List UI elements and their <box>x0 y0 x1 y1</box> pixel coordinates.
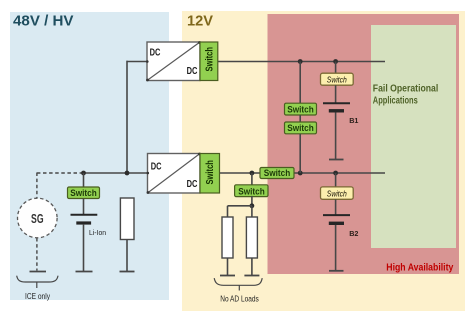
svg-text:DC: DC <box>150 47 161 58</box>
svg-text:B1: B1 <box>349 116 358 125</box>
svg-text:SG: SG <box>31 212 44 226</box>
svg-text:Fail Operational: Fail Operational <box>373 82 439 94</box>
wire S8 to battery B2 <box>335 199 337 215</box>
switch S4 in-line lower bus <box>260 168 294 180</box>
svg-text:DC: DC <box>187 66 198 77</box>
resistor load right <box>246 217 257 258</box>
wire top bus to switch S7 <box>335 62 337 74</box>
ground terminal under B1 <box>329 159 344 161</box>
zone 12V background <box>182 11 465 311</box>
wire Li-Ion branch upper <box>83 173 85 187</box>
ground terminal under Li-Ion <box>76 271 93 273</box>
wire dashed SG vertical bottom <box>36 238 38 271</box>
ground terminal under SG <box>30 271 47 273</box>
ground terminal under B2 <box>329 270 344 272</box>
wire resistor to ground <box>126 240 128 272</box>
wire Li-Ion battery to ground <box>83 224 85 271</box>
wire 48V bus to DC/DC U2 <box>84 172 148 174</box>
svg-text:Switch: Switch <box>327 189 347 198</box>
wire load split horizontal <box>228 205 252 207</box>
ground terminal load left <box>220 275 235 277</box>
battery B2 <box>323 215 358 238</box>
wire load right to ground <box>251 258 253 275</box>
node lower bus / B2 branch <box>333 171 338 176</box>
svg-text:B2: B2 <box>349 229 358 238</box>
svg-text:Li-Ion: Li-Ion <box>89 228 106 237</box>
switch S8 B2 (normally open) <box>321 187 354 199</box>
zone 48V/HV background <box>10 12 169 300</box>
switch S9 No-AD loads <box>235 185 268 198</box>
svg-text:Switch: Switch <box>264 168 291 179</box>
svg-text:Applications: Applications <box>373 95 418 107</box>
switch S6 cross-tie lower <box>285 122 317 134</box>
svg-text:Switch: Switch <box>70 188 97 199</box>
wire lower bus to switch S9 <box>251 173 253 185</box>
svg-text:DC: DC <box>187 179 198 190</box>
DC/DC converter U2 <box>147 153 201 194</box>
switch S2 at U1 output <box>200 42 218 81</box>
SG starter-generator <box>18 198 58 238</box>
switch S3 at U2 output <box>200 154 220 194</box>
battery B1 <box>323 103 358 125</box>
svg-text:ICE only: ICE only <box>25 292 50 301</box>
node lower bus / No-AD branch <box>250 171 255 176</box>
wire switch to Li-Ion battery <box>83 199 85 215</box>
wire S9 to load node <box>251 196 253 206</box>
node 48V bus / Li-Ion branch <box>81 171 86 176</box>
wire battery B1 to terminal <box>335 112 337 159</box>
wire cross-tie lower <box>299 134 301 173</box>
ground terminal under 48V resistor <box>120 271 135 273</box>
svg-text:48V / HV: 48V / HV <box>13 14 74 30</box>
wire dashed SG to 48V bus <box>37 172 84 174</box>
svg-text:Switch: Switch <box>205 47 216 71</box>
svg-text:Switch: Switch <box>287 104 314 115</box>
brace ICE only <box>17 276 58 301</box>
wire cross-tie middle <box>299 115 301 122</box>
node lower bus / cross-tie <box>298 171 303 176</box>
wire cross-tie upper <box>299 62 301 104</box>
ground terminal load right <box>244 275 259 277</box>
svg-text:Switch: Switch <box>287 123 314 134</box>
battery Li-Ion <box>71 215 107 237</box>
resistor load left <box>222 217 233 258</box>
wire load left to ground <box>227 258 229 275</box>
svg-text:12V: 12V <box>187 14 213 30</box>
wire dashed SG vertical top <box>36 173 38 199</box>
node 48V bus / trunk <box>125 171 130 176</box>
wire DC/DC U1 input <box>127 61 148 63</box>
svg-text:DC: DC <box>151 161 162 172</box>
wire battery B2 to terminal <box>335 225 337 270</box>
svg-text:Switch: Switch <box>327 75 347 84</box>
resistor 48V load <box>120 198 134 240</box>
brace No AD Loads <box>214 278 262 303</box>
svg-text:No AD Loads: No AD Loads <box>220 295 259 304</box>
wire S7 to battery B1 <box>335 85 337 103</box>
wire to load resistor left <box>227 206 229 217</box>
zone High Availability background <box>268 14 460 274</box>
wire top bus 12V (U1 output to right) <box>218 61 386 63</box>
node top bus / cross-tie <box>298 59 303 64</box>
DC/DC converter U1 <box>146 41 201 81</box>
switch S5 cross-tie upper <box>285 103 317 115</box>
wire lower bus 12V <box>220 172 386 174</box>
svg-text:Switch: Switch <box>205 160 216 185</box>
wire 48V trunk vertical <box>126 61 128 173</box>
switch S1 Li-Ion <box>68 187 100 199</box>
wire lower bus to switch S8 <box>335 173 337 187</box>
switch S7 B1 (normally open) <box>321 73 354 85</box>
wire to load resistor right <box>251 206 253 217</box>
node top bus / B1 branch <box>333 59 338 64</box>
svg-text:High Availability: High Availability <box>386 262 453 274</box>
svg-text:Switch: Switch <box>238 186 265 197</box>
zone Fail Operational Applications background <box>371 25 456 248</box>
node load split <box>250 203 255 208</box>
